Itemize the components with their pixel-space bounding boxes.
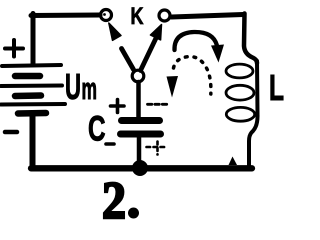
wire top-right horizontal — [172, 15, 244, 18]
current arrow solid (clockwise) — [174, 32, 216, 50]
switch pivot — [132, 70, 144, 82]
switch arm right (closed direction) — [141, 36, 158, 71]
wire battery negative stub — [30, 116, 36, 166]
capacitor plus label — [111, 100, 125, 113]
capacitor dashed minus (future polarity) — [148, 103, 168, 106]
capacitor C bottom plate — [121, 131, 161, 138]
wire top-left horizontal — [31, 13, 100, 19]
battery Um plate long 3 — [1, 102, 65, 107]
capacitor minus label — [106, 142, 114, 146]
current arrow dashed (counter-clockwise) — [174, 57, 211, 94]
ink blob on bottom wire — [229, 157, 238, 166]
switch contact left — [101, 10, 112, 21]
switch contact right — [159, 10, 170, 21]
inductor L loop 3 — [226, 107, 254, 121]
inductor L loop 2 — [226, 85, 254, 100]
junction node dot — [132, 160, 148, 176]
figure number period — [128, 208, 139, 219]
svg-text:L: L — [269, 67, 284, 108]
wire bottom horizontal — [31, 165, 252, 171]
battery Um plate long 2 — [1, 84, 62, 89]
svg-text:K: K — [131, 3, 144, 30]
svg-text:U: U — [65, 66, 81, 107]
battery plus label — [5, 40, 23, 57]
current arrow solid head — [211, 45, 224, 63]
svg-text:m: m — [82, 71, 98, 106]
wire pivot to capacitor — [136, 82, 141, 119]
switch arm left dash — [122, 49, 134, 70]
capacitor dashed plus (future polarity) — [147, 142, 168, 155]
switch arm right arrowhead — [150, 25, 161, 40]
battery Um plate long 1 — [2, 65, 61, 66]
wire capacitor to bottom junction — [137, 137, 142, 166]
battery minus label — [5, 130, 17, 135]
switch arm left arrowhead — [109, 23, 121, 40]
battery Um plate short 3 — [18, 110, 46, 117]
wire left vertical rail — [31, 14, 36, 65]
battery Um plate short 1 — [15, 73, 40, 80]
inductor L loop 1 — [226, 64, 253, 78]
battery Um plate short 2 — [15, 92, 41, 99]
svg-text:C: C — [88, 110, 106, 149]
wire right corner down to coil — [244, 14, 257, 64]
inductor right side wire — [249, 61, 258, 167]
svg-text:2: 2 — [102, 172, 126, 230]
current arrow dashed head — [167, 76, 179, 98]
capacitor C top plate — [122, 117, 160, 124]
ink speck in left contact — [103, 13, 106, 16]
